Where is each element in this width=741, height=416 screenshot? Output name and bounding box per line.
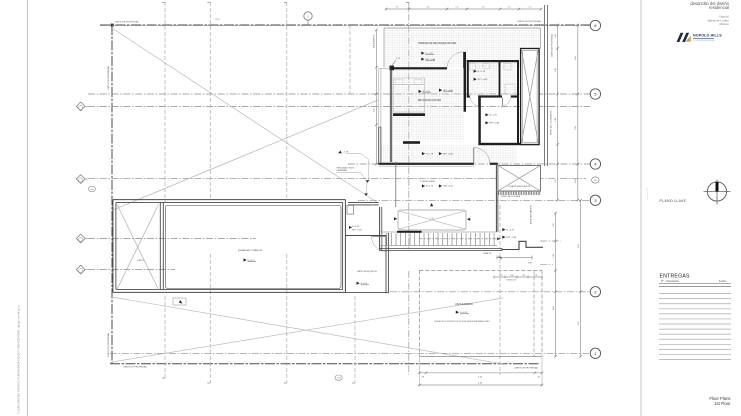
svg-text:6.86: 6.86 (575, 56, 577, 60)
svg-text:Fecha: Fecha (719, 280, 726, 283)
house south wall (478, 143, 539, 145)
svg-text:Descripción: Descripción (667, 280, 680, 283)
colindancia wall east (544, 5, 546, 166)
svg-text:1st Floor: 1st Floor (714, 401, 731, 406)
patio de equipos walls (345, 235, 386, 237)
stair west wall (379, 207, 381, 251)
svg-text:1.20: 1.20 (430, 218, 434, 220)
svg-text:ESTANCIA / COMEDOR: ESTANCIA / COMEDOR (238, 249, 262, 252)
south gallery hatch (381, 145, 517, 162)
sidewalk marker (173, 298, 186, 305)
svg-text:ASOLEADERO: ASOLEADERO (455, 302, 473, 306)
svg-text:PERGOLADO PLEX: PERGOLADO PLEX (337, 167, 355, 170)
east dim chain 1 (557, 25, 559, 200)
svg-text:PLACAS DE CONCRETO DE 10CM DE: PLACAS DE CONCRETO DE 10CM DE ESPESOR AC… (434, 320, 490, 323)
patio servicio east labels row1 (422, 152, 425, 155)
asoleadero corner guides (418, 358, 420, 387)
grid line 6 (100, 25, 590, 27)
svg-text:1.04: 1.04 (337, 378, 341, 380)
svg-text:AREA ABIERTA: AREA ABIERTA (373, 34, 376, 48)
svg-text:1.98: 1.98 (553, 254, 555, 258)
estancia wing south wall (113, 291, 346, 293)
colindancia hatch strip (498, 191, 500, 195)
svg-text:P. TERM +0 ADM: P. TERM +0 ADM (420, 180, 435, 183)
svg-text:N +1.78: N +1.78 (507, 229, 515, 231)
svg-text:.59: .59 (421, 377, 424, 379)
grid diamond D (76, 265, 88, 274)
svg-text:4.06: 4.06 (553, 306, 555, 310)
vertical grid line x=165 (162, 2, 165, 4)
svg-text:2.60: 2.60 (481, 7, 484, 9)
corridor level labels (502, 228, 505, 231)
grid line 1 (110, 352, 590, 354)
svg-text:1.46: 1.46 (555, 118, 557, 122)
planter with X (398, 210, 466, 230)
bath doors (471, 98, 479, 106)
west low wall upper (378, 68, 380, 127)
stair bottom wall (380, 249, 502, 251)
bed furniture (394, 78, 425, 112)
patio de equipos door (372, 237, 387, 252)
svg-text:COSTA RESIDENCIAL: COSTA RESIDENCIAL (693, 39, 715, 42)
vertical grid line x=409 (406, 2, 409, 4)
floor tile hatch recamara (392, 69, 464, 141)
svg-text:2.05: 2.05 (578, 321, 580, 325)
grid line 4a (88, 178, 586, 180)
svg-text:NTN +0.66: NTN +0.66 (443, 186, 454, 188)
svg-text:LIMITE DE PROPIEDAD: LIMITE DE PROPIEDAD (551, 34, 554, 57)
grid bubble 1 (590, 348, 600, 358)
yard diagonal SW-NE (113, 100, 378, 210)
svg-text:PATIO DE EQUIPOS: PATIO DE EQUIPOS (357, 270, 377, 273)
svg-text:PLANO LLAVE: PLANO LLAVE (660, 199, 687, 203)
bottom dim row 1 (419, 372, 542, 374)
west facade wall (378, 127, 380, 165)
svg-text:AREA SEMI ABIERTA: AREA SEMI ABIERTA (530, 205, 533, 224)
svg-text:LIMITE DE PROPIEDAD: LIMITE DE PROPIEDAD (107, 332, 110, 357)
svg-text:N +1.78: N +1.78 (478, 71, 486, 73)
terraza edge lines (384, 27, 541, 29)
svg-text:1.55: 1.55 (555, 179, 557, 183)
terraza north wall (390, 67, 447, 69)
svg-text:N°: N° (661, 280, 664, 283)
svg-text:NPT +0.86: NPT +0.86 (478, 79, 488, 81)
svg-text:LIMITE DE PROPIEDAD: LIMITE DE PROPIEDAD (517, 20, 542, 23)
vertical grid line x=287 (284, 2, 287, 4)
svg-text:NOPOLO HILLS: NOPOLO HILLS (693, 33, 722, 37)
svg-text:1.50: 1.50 (507, 7, 510, 9)
svg-text:1.70: 1.70 (528, 7, 531, 9)
recamara west wall (389, 66, 391, 162)
recamara east wall (464, 52, 466, 112)
floor tile hatch baths (469, 62, 517, 95)
stair direction line (419, 238, 501, 240)
grid line 5 (88, 93, 590, 95)
svg-text:LIMITE DE PROPIEDAD: LIMITE DE PROPIEDAD (514, 366, 539, 369)
svg-text:ENTREGAS: ENTREGAS (660, 273, 690, 279)
estancia wing north wall (113, 199, 346, 201)
svg-text:0.90: 0.90 (395, 7, 398, 9)
svg-text:residencial: residencial (709, 5, 729, 10)
vertical grid line x=210 (207, 2, 210, 4)
svg-text:NPT +0.86: NPT +0.86 (490, 123, 500, 125)
svg-text:LIMITE DE PROPIEDAD: LIMITE DE PROPIEDAD (107, 65, 110, 90)
svg-text:3.18: 3.18 (478, 377, 482, 379)
svg-text:1.04: 1.04 (90, 189, 94, 191)
vertical grid line x=350 (349, 25, 351, 94)
top keynote bubble (304, 12, 312, 20)
grid line A (88, 105, 590, 107)
svg-text:7.00: 7.00 (575, 126, 577, 130)
grid bubble 3 (590, 195, 600, 205)
svg-text:N +1.78: N +1.78 (426, 186, 434, 188)
svg-text:LOSA DE VENTILACIÓN: LOSA DE VENTILACIÓN (508, 185, 531, 188)
svg-text:LIMITE DE PROPIEDAD: LIMITE DE PROPIEDAD (115, 20, 140, 23)
svg-text:1.98: 1.98 (510, 275, 513, 277)
grid line 3 (358, 199, 590, 201)
grid line D (88, 269, 175, 271)
patio servicio south wall (348, 202, 379, 204)
grid diamond B (76, 175, 88, 184)
recamara south wall (379, 163, 474, 165)
svg-text:1.46: 1.46 (555, 34, 557, 38)
svg-text:1.96: 1.96 (534, 275, 537, 277)
hall west wall (478, 98, 480, 145)
east dim chain lower 2 (580, 200, 582, 356)
grid bubble 2 (590, 287, 600, 297)
south door (473, 148, 475, 164)
closet bar 1 (393, 113, 425, 116)
asoleadero dashed deck (419, 269, 542, 271)
grid bubble 4 (590, 159, 600, 169)
estancia wing east wall (344, 200, 346, 293)
sheet left border line (26, 0, 28, 416)
keynote oval south (335, 375, 342, 380)
svg-text:.59: .59 (537, 377, 540, 379)
svg-text:MURO DE COLINDA: MURO DE COLINDA (501, 195, 521, 198)
svg-text:RECAMARA MASTER: RECAMARA MASTER (418, 99, 441, 102)
wall post (389, 66, 394, 71)
grid bubble 6 (590, 20, 600, 30)
svg-text:7.48: 7.48 (555, 68, 557, 72)
svg-text:PASTO: PASTO (138, 259, 145, 262)
svg-text:3.05: 3.05 (374, 108, 376, 112)
svg-text:6.38: 6.38 (478, 382, 482, 384)
losa de ventilacion box (498, 165, 541, 191)
south yard diagonal 1 (112, 297, 503, 364)
svg-text:1.20: 1.20 (522, 275, 525, 277)
svg-text:N +0.15: N +0.15 (352, 226, 360, 228)
semi-open wall (495, 165, 497, 232)
svg-text:N +1.78: N +1.78 (490, 115, 498, 117)
grid bubble 5 (590, 89, 600, 99)
top dimension line (386, 8, 541, 10)
stair treads (381, 233, 383, 246)
grid bubble 4a (592, 177, 600, 183)
property line south (110, 363, 540, 365)
closet bar 2 (403, 141, 420, 144)
svg-text:5.06: 5.06 (578, 244, 580, 248)
north compass (704, 180, 731, 205)
grid line 4 (348, 163, 590, 165)
estancia inner room outline (165, 205, 341, 288)
svg-text:escala 1:100: escala 1:100 (647, 187, 649, 200)
grid diamond A (76, 102, 88, 111)
property line north (100, 24, 590, 26)
stair top edge (380, 231, 497, 233)
svg-text:NPT +0.86: NPT +0.86 (352, 230, 362, 232)
grid diamond C (76, 234, 88, 243)
svg-text:3.60: 3.60 (575, 179, 577, 183)
bottom dim row 2 (419, 384, 542, 386)
estancia wing west wall (112, 200, 114, 293)
svg-text:CAMA T.B.: CAMA T.B. (483, 252, 492, 255)
svg-text:N +1.78: N +1.78 (426, 153, 434, 155)
planter cell wall (159, 202, 161, 289)
svg-text:1.03: 1.03 (499, 275, 502, 277)
west house dim chain (375, 30, 377, 164)
svg-text:24.80: 24.80 (215, 19, 220, 21)
grid line 2 (390, 291, 590, 293)
svg-text:NPT +0.86: NPT +0.86 (443, 153, 453, 155)
bath block walls (467, 60, 519, 62)
svg-text:1.06: 1.06 (553, 223, 555, 227)
svg-text:México: México (719, 22, 729, 26)
corridor step wall east (502, 241, 543, 249)
svg-text:DE ARRIBA: DE ARRIBA (337, 169, 348, 172)
south yard diagonal 2 (112, 298, 503, 362)
keynote oval (88, 186, 95, 191)
patio step (347, 205, 354, 214)
east dim chain 2 (577, 25, 579, 200)
svg-text:3.00: 3.00 (426, 7, 429, 9)
svg-text:C:\CAD 2001\NH CASA 01 PLANTA: C:\CAD 2001\NH CASA 01 PLANTA BAJA LAYOU… (17, 305, 21, 414)
small dims below stairs (497, 257, 532, 259)
asoleadero dim row (494, 276, 542, 278)
svg-text:NPT +0.86: NPT +0.86 (507, 237, 517, 239)
leader label N+1.78 west (338, 151, 342, 154)
title block divider line (640, 0, 642, 416)
east dim chain lower (555, 213, 557, 357)
grid line C (88, 238, 256, 240)
bath fixtures (470, 64, 476, 71)
planter cell X brace (117, 205, 159, 290)
property line west (111, 25, 113, 364)
logo Nopolo Hills (677, 33, 723, 42)
svg-text:MURO DE COLINDANCIA: MURO DE COLINDANCIA (550, 110, 553, 135)
shaft (521, 49, 540, 145)
bath labels (474, 70, 477, 73)
svg-text:LIMITE DE PROPIEDAD: LIMITE DE PROPIEDAD (123, 365, 148, 368)
extension stubs (540, 240, 561, 242)
vertical grid line x=500 (499, 205, 501, 375)
terraza door (462, 52, 464, 68)
svg-text:1.50: 1.50 (455, 7, 458, 9)
floor tile hatch terraza (384, 28, 541, 67)
svg-text:TERRAZA DE RECAMARA MASTER: TERRAZA DE RECAMARA MASTER (418, 42, 457, 45)
yard diagonal NW-SE (114, 29, 379, 203)
